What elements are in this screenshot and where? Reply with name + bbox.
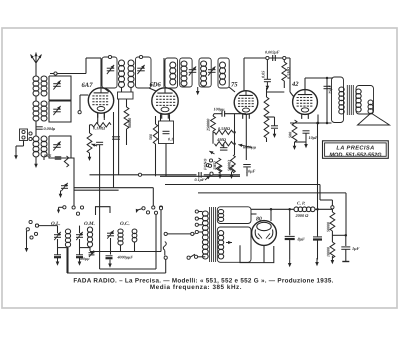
svg-text:100μμ: 100μμ xyxy=(214,107,226,112)
svg-text:0.004μ: 0.004μ xyxy=(44,126,56,131)
svg-text:4000μμF: 4000μμF xyxy=(117,255,134,260)
svg-text:6000μμ: 6000μμ xyxy=(243,145,257,150)
svg-text:O.M.: O.M. xyxy=(84,221,95,227)
svg-text:O.C.: O.C. xyxy=(120,221,130,227)
svg-text:8μF: 8μF xyxy=(298,237,306,242)
svg-text:MOD. 551-552-552G: MOD. 551-552-552G xyxy=(329,152,382,158)
svg-text:10000: 10000 xyxy=(326,247,331,257)
svg-text:1MΩ: 1MΩ xyxy=(212,161,217,170)
svg-text:0.05: 0.05 xyxy=(261,71,266,78)
svg-text:0.5MΩ: 0.5MΩ xyxy=(218,126,231,131)
svg-text:0.1μF: 0.1μF xyxy=(195,177,205,182)
svg-text:0.05: 0.05 xyxy=(44,153,51,158)
svg-text:10μF: 10μF xyxy=(309,135,319,140)
svg-text:500: 500 xyxy=(148,134,153,140)
svg-text:250000: 250000 xyxy=(206,119,211,132)
svg-text:42: 42 xyxy=(291,81,299,88)
svg-text:Media frequenza: 385 kHz.: Media frequenza: 385 kHz. xyxy=(150,284,242,291)
svg-text:4MΩ: 4MΩ xyxy=(216,137,227,142)
svg-text:500: 500 xyxy=(288,132,293,138)
svg-text:0.1: 0.1 xyxy=(168,137,173,142)
svg-text:FONO: FONO xyxy=(203,159,208,170)
svg-text:80: 80 xyxy=(256,217,262,223)
svg-text:2000 Ω: 2000 Ω xyxy=(295,213,310,218)
svg-text:1μF: 1μF xyxy=(352,246,360,251)
svg-text:0.1MΩ: 0.1MΩ xyxy=(93,126,106,131)
svg-text:LA PRECISA: LA PRECISA xyxy=(336,146,374,152)
svg-text:75: 75 xyxy=(231,82,238,89)
svg-text:50000: 50000 xyxy=(326,222,331,232)
svg-text:30000: 30000 xyxy=(127,118,132,129)
svg-text:500μμ: 500μμ xyxy=(79,256,90,261)
svg-text:6A7: 6A7 xyxy=(82,82,94,89)
svg-text:0.002μF: 0.002μF xyxy=(265,50,280,55)
svg-text:C. P.: C. P. xyxy=(297,201,305,206)
